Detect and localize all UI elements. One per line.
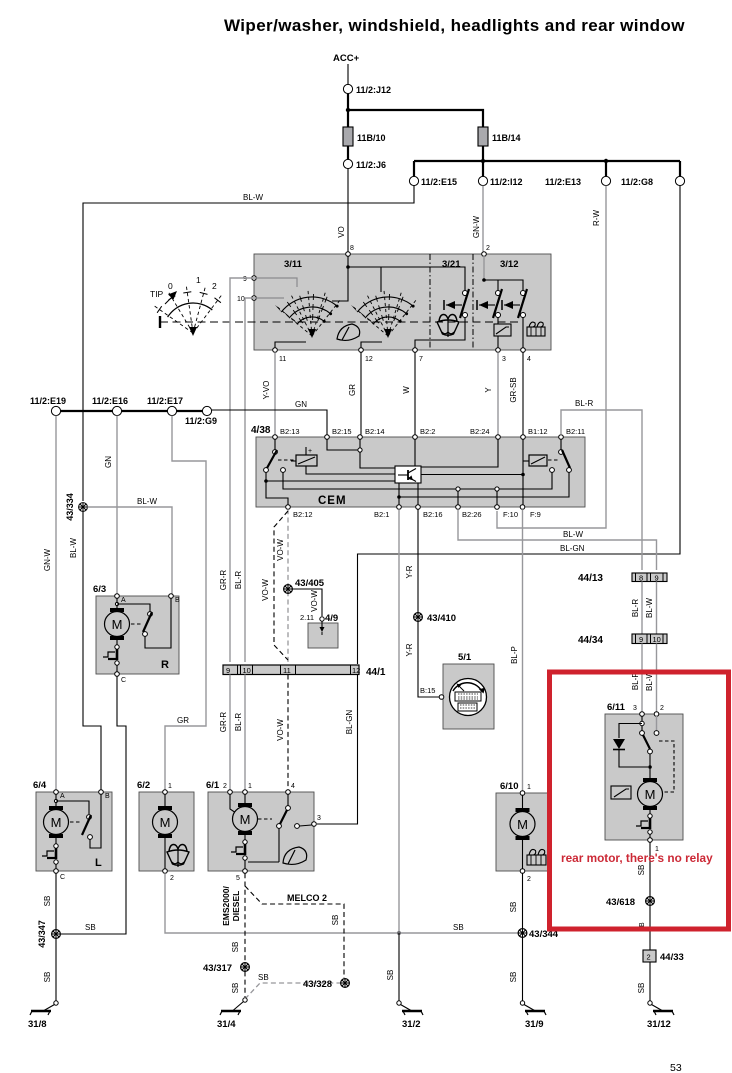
svg-text:M: M bbox=[51, 815, 62, 830]
wire GR from E17 to 6/2 pin 1 bbox=[165, 416, 206, 790]
label SB on MELCO drop bbox=[331, 915, 340, 926]
svg-text:SB: SB bbox=[509, 902, 518, 913]
svg-text:B: B bbox=[175, 597, 180, 604]
wire BL-R 44/34 to 6/11 pin 3 bbox=[641, 644, 643, 712]
CEM pin F:9 bbox=[520, 505, 541, 519]
wire W pin 7 to CEM B2:2 bbox=[414, 352, 416, 434]
svg-text:M: M bbox=[645, 787, 656, 802]
bus wire E15 to G8 bbox=[414, 160, 680, 162]
6/1 wiper blade icon bbox=[283, 847, 307, 864]
6/4 pin B bbox=[99, 790, 110, 800]
switch module 3/11 box bbox=[254, 254, 551, 350]
rear window defrost icon 3/12 bbox=[527, 322, 545, 336]
svg-text:9: 9 bbox=[226, 666, 230, 675]
svg-text:10: 10 bbox=[243, 666, 251, 675]
svg-text:GN-W: GN-W bbox=[43, 548, 52, 571]
pin 2 of 3/11 bbox=[482, 252, 487, 257]
wire SB 6/2 pin 2 to bus bbox=[165, 873, 520, 933]
svg-text:Wiper/washer, windshield, head: Wiper/washer, windshield, headlights and… bbox=[224, 16, 685, 35]
internal wire fan2 feed bbox=[380, 267, 382, 292]
svg-text:Y-VO: Y-VO bbox=[262, 381, 271, 400]
svg-text:31/2: 31/2 bbox=[402, 1019, 421, 1030]
svg-text:6/1: 6/1 bbox=[206, 780, 220, 791]
label Y bbox=[484, 387, 493, 393]
6/10 pin 1 bbox=[520, 784, 531, 795]
svg-text:6/11: 6/11 bbox=[607, 702, 626, 713]
label Y-R lower bbox=[405, 643, 414, 656]
rear defrost element 6/10 box bbox=[496, 781, 551, 871]
connector 11/2:E15 bbox=[409, 176, 457, 187]
wire BL-R 44/1 pin 10 to 6/1 pin 1 bbox=[244, 675, 246, 792]
svg-text:C: C bbox=[121, 677, 126, 684]
CEM pin B2:26 bbox=[456, 505, 482, 519]
wire junction down to fuse 11B/10 bbox=[347, 110, 349, 127]
wire GR-SB pin 4 to CEM B1:12 bbox=[522, 352, 524, 434]
CEM pin F:10 bbox=[495, 505, 518, 519]
wire SB gray from CEM B2:1 to bus bbox=[398, 509, 400, 933]
connector 11/2:E16 bbox=[92, 396, 128, 416]
headlight wiper motor 6/4 box bbox=[33, 780, 112, 871]
title bbox=[224, 16, 685, 35]
svg-text:8: 8 bbox=[350, 245, 354, 252]
svg-text:SB: SB bbox=[453, 923, 464, 932]
svg-text:GR-SB: GR-SB bbox=[509, 377, 518, 402]
svg-text:44/1: 44/1 bbox=[366, 667, 386, 678]
svg-text:BL-W: BL-W bbox=[243, 193, 263, 202]
wire SB 6/10 pin 2 to splice 43/344 bbox=[522, 873, 524, 929]
internal wire pin 11 to fan1 bbox=[275, 342, 306, 348]
internal wire pin10 into rotor field bbox=[254, 297, 284, 299]
6/4 pin C bbox=[54, 869, 65, 881]
stub to 11/2:G8 bbox=[679, 161, 681, 176]
CEM internal wire contact to B2:12 bbox=[264, 472, 288, 505]
label GR bbox=[348, 384, 357, 396]
svg-text:11/2:I12: 11/2:I12 bbox=[490, 177, 523, 187]
label SB dash2 bbox=[231, 983, 240, 994]
label SB rear2 bbox=[639, 922, 646, 932]
annotation rear motor, there's no relay bbox=[561, 851, 713, 865]
6/4 label L bbox=[95, 857, 102, 869]
6/10 motor M bbox=[510, 795, 535, 869]
svg-text:R-W: R-W bbox=[592, 210, 601, 226]
svg-text:44/13: 44/13 bbox=[578, 573, 603, 584]
svg-text:9: 9 bbox=[639, 635, 643, 644]
svg-text:SB: SB bbox=[231, 942, 240, 953]
svg-text:M: M bbox=[112, 617, 123, 632]
svg-text:9: 9 bbox=[655, 574, 659, 583]
junction dot E13 bbox=[604, 159, 608, 163]
svg-text:BL-W: BL-W bbox=[645, 598, 654, 618]
wire GN from E16 to 6/3 pin A bbox=[116, 416, 118, 594]
svg-text:GN-W: GN-W bbox=[472, 215, 481, 238]
svg-text:B2:2: B2:2 bbox=[420, 427, 435, 436]
svg-text:B2:1: B2:1 bbox=[374, 510, 389, 519]
svg-text:F:10: F:10 bbox=[503, 510, 518, 519]
svg-text:B2:24: B2:24 bbox=[470, 427, 490, 436]
pin 8 of 3/11 bbox=[346, 252, 351, 257]
svg-text:1: 1 bbox=[196, 275, 201, 285]
label BL-W mid bbox=[137, 497, 157, 506]
svg-text:43/317: 43/317 bbox=[203, 963, 232, 974]
svg-text:6/10: 6/10 bbox=[500, 781, 519, 792]
svg-text:3: 3 bbox=[502, 356, 506, 363]
svg-text:2: 2 bbox=[223, 783, 227, 790]
6/11 headlamp wiper icon bbox=[611, 786, 631, 799]
svg-text:43/405: 43/405 bbox=[295, 578, 325, 589]
windshield wiper motor 6/1 box bbox=[206, 780, 314, 871]
wire SB 43/618 to 44/33 bbox=[649, 905, 651, 950]
splice 43/344 bbox=[518, 929, 559, 940]
svg-text:11/2:E16: 11/2:E16 bbox=[92, 396, 128, 406]
wire SB dashed 6/1 pin 5 to splice 43/317 bbox=[244, 873, 246, 962]
label 3/11 bbox=[284, 259, 303, 270]
6/1 pin 5 bbox=[236, 869, 247, 882]
svg-text:4: 4 bbox=[527, 356, 531, 363]
6/11 pin 2 bbox=[654, 705, 664, 716]
label EMS2000/DIESEL bbox=[221, 886, 241, 926]
svg-text:+: + bbox=[308, 448, 312, 455]
6/2 washer spray icon bbox=[167, 845, 189, 868]
label VO-W lower bbox=[276, 719, 285, 741]
connector rail 44/1 bbox=[223, 665, 386, 678]
svg-text:2: 2 bbox=[486, 245, 490, 252]
svg-text:3/11: 3/11 bbox=[284, 259, 303, 270]
svg-text:EMS2000/: EMS2000/ bbox=[221, 886, 231, 926]
6/1 motor M bbox=[230, 794, 258, 835]
label BL-P bbox=[510, 646, 519, 664]
internal wire pin9 into rotor field bbox=[254, 278, 297, 287]
svg-text:7: 7 bbox=[419, 356, 423, 363]
wire BL-W 44/13 to 44/34 bbox=[656, 582, 658, 635]
svg-text:BL-R: BL-R bbox=[234, 713, 243, 731]
svg-text:1: 1 bbox=[168, 783, 172, 790]
svg-text:GN: GN bbox=[295, 400, 307, 409]
label BL-W low bbox=[645, 671, 654, 691]
rotary fan switch 2 of 3/11 bbox=[351, 289, 417, 338]
svg-text:8: 8 bbox=[639, 574, 643, 583]
svg-text:MELCO 2: MELCO 2 bbox=[287, 893, 327, 903]
wire VO from J6 to 3/11 pin 8 bbox=[347, 169, 349, 252]
6/1 pin 3 bbox=[312, 815, 321, 826]
connector 11/2:J12 bbox=[343, 84, 391, 95]
label BL-GN vertical bbox=[345, 710, 354, 735]
internal wire pin8 junction bbox=[346, 256, 465, 290]
label SB left bbox=[43, 896, 52, 907]
pin 11 of 3/11 bbox=[273, 348, 287, 363]
internal wire pin 2 junction 3/12 bbox=[482, 256, 523, 290]
svg-text:BL-R: BL-R bbox=[631, 599, 640, 617]
divider 3/11|3/21 bbox=[429, 254, 431, 350]
6/3 label R bbox=[161, 659, 169, 671]
CEM internal wire transistor to B1:12 node bbox=[421, 474, 523, 476]
CEM internal wire B1:12 to F:9 bbox=[521, 439, 525, 505]
svg-text:43/347: 43/347 bbox=[37, 920, 47, 948]
svg-text:5/1: 5/1 bbox=[458, 652, 472, 663]
label Y-VO bbox=[262, 381, 271, 400]
CEM pin B1:12 bbox=[521, 427, 548, 439]
6/11 pin 1 bbox=[648, 838, 659, 853]
wire GN-W from E19 to 6/4 pin A bbox=[55, 416, 57, 790]
rotary fan switch 1 of 3/11 bbox=[275, 289, 341, 338]
svg-text:GR-R: GR-R bbox=[219, 570, 228, 591]
internal wire switch2 to pin 4 bbox=[522, 317, 524, 348]
ground 31/2 bbox=[397, 1001, 423, 1030]
junction dot below 11B/14 bbox=[481, 159, 485, 163]
6/4 pin A bbox=[54, 790, 65, 800]
wire Y pin 3 to CEM B2:24 bbox=[497, 352, 499, 434]
svg-text:VO-W: VO-W bbox=[310, 590, 319, 612]
wire BL-R 44/13 to 44/34 bbox=[641, 582, 643, 635]
pin 10 of 3/11 bbox=[237, 296, 256, 303]
6/11 motor M bbox=[638, 754, 663, 810]
svg-text:31/8: 31/8 bbox=[28, 1019, 47, 1030]
svg-text:11/2:E17: 11/2:E17 bbox=[147, 396, 183, 406]
CEM internal wire contact2 bus bbox=[283, 472, 552, 489]
label VO-W dashed black bbox=[261, 579, 270, 601]
svg-text:10: 10 bbox=[653, 635, 661, 644]
CEM internal junction F:10 bbox=[495, 487, 499, 505]
6/2 motor M bbox=[153, 794, 178, 869]
splice 43/405 bbox=[284, 578, 325, 593]
headlight wiper switch 3/12 bbox=[477, 289, 502, 318]
CEM pin B2:1 bbox=[374, 505, 401, 519]
connector 11/2:E13 bbox=[545, 176, 611, 187]
label VO-W branch bbox=[310, 590, 319, 612]
label BL-W right bbox=[563, 530, 583, 539]
svg-text:10: 10 bbox=[237, 296, 245, 303]
label 3/21 bbox=[442, 259, 461, 270]
svg-text:43/410: 43/410 bbox=[427, 613, 456, 624]
svg-text:11B/10: 11B/10 bbox=[357, 133, 386, 143]
svg-text:11: 11 bbox=[283, 666, 291, 675]
svg-text:B2:26: B2:26 bbox=[462, 510, 482, 519]
svg-text:ACC+: ACC+ bbox=[333, 53, 360, 64]
svg-text:53: 53 bbox=[670, 1062, 682, 1073]
wire BL-R pin 10 to 44/1 pin 10 bbox=[245, 298, 254, 662]
ground 31/4 bbox=[217, 998, 247, 1030]
label SB 312 bbox=[386, 970, 395, 981]
divider 3/21|3/12 bbox=[472, 254, 474, 350]
connector 11/2:I12 bbox=[478, 176, 522, 187]
6/3 park position symbol bbox=[103, 640, 119, 672]
svg-text:2: 2 bbox=[527, 876, 531, 883]
label GN-W left bbox=[43, 548, 52, 571]
diode module 4/9 bbox=[300, 613, 338, 648]
svg-text:11/2:J6: 11/2:J6 bbox=[356, 160, 386, 170]
svg-text:BL-R: BL-R bbox=[575, 399, 593, 408]
svg-text:SB: SB bbox=[637, 865, 646, 876]
label 3/12 bbox=[500, 259, 519, 270]
svg-text:11/2:E13: 11/2:E13 bbox=[545, 177, 581, 187]
label BL-R upper bbox=[234, 571, 243, 589]
wire BL-P from CEM F:9 to 6/10 pin 1 bbox=[522, 509, 524, 791]
wire SB dashed 43/317 to ground 31/4 bbox=[244, 971, 246, 997]
svg-text:44/33: 44/33 bbox=[660, 952, 684, 963]
wire SB dashed gray link 43/328 bbox=[245, 983, 340, 999]
CEM internal wire transistor emitter to relay bbox=[397, 472, 569, 505]
wire BL-GN 44/1 pin 12 to 6/1 pin 3 bbox=[317, 675, 358, 825]
svg-text:SB: SB bbox=[386, 970, 395, 981]
svg-text:C: C bbox=[60, 874, 65, 881]
wire Y-R splice to 5/1 B:15 bbox=[418, 621, 439, 697]
wire VO-W dashed black B2:12 branch bbox=[274, 511, 288, 660]
svg-text:11/2:J12: 11/2:J12 bbox=[356, 85, 391, 95]
label SB rear bbox=[637, 865, 646, 876]
wire VO-W splice to 4/9 bbox=[292, 589, 322, 616]
wire BL-W from CEM B2:26 to 44/13 pin 9 bbox=[458, 509, 657, 570]
6/10 defrost icon bbox=[527, 849, 546, 865]
svg-text:BL-GN: BL-GN bbox=[345, 710, 354, 735]
svg-text:L: L bbox=[95, 857, 102, 869]
svg-text:11: 11 bbox=[279, 356, 286, 363]
svg-text:31/12: 31/12 bbox=[647, 1019, 671, 1030]
internal wire 3/21 lower contact to pin 7 bbox=[415, 317, 465, 348]
pin 7 of 3/11 bbox=[413, 348, 423, 363]
CEM dashed link right bbox=[548, 459, 560, 461]
svg-text:43/328: 43/328 bbox=[303, 979, 332, 990]
svg-text:GR-R: GR-R bbox=[219, 712, 228, 733]
6/4 park switch contact bbox=[56, 794, 101, 848]
wire BL-R from CEM B2:11 to 44/13 pin 8 bbox=[561, 410, 642, 570]
label SB 610 bbox=[509, 902, 518, 913]
wire ACC+ to connector 11/2:J12 bbox=[347, 64, 349, 84]
TIP dial symbol bbox=[150, 275, 222, 336]
label SB 319 bbox=[509, 972, 518, 983]
svg-text:TIP: TIP bbox=[150, 289, 164, 299]
label GR-SB bbox=[509, 377, 518, 402]
internal wire pin 12 to fan2 bbox=[361, 342, 382, 348]
CEM internal wire contact bus to transistor bbox=[266, 480, 395, 482]
ground 31/12 bbox=[647, 1001, 674, 1030]
CEM pin B2:15 bbox=[325, 427, 352, 439]
svg-text:VO-W: VO-W bbox=[276, 719, 285, 741]
wire VO-W 44/1 pin 11 to 6/1 pin 4 bbox=[287, 675, 289, 792]
svg-text:SB: SB bbox=[637, 983, 646, 994]
fuse 11B/14 bbox=[478, 127, 521, 146]
CEM relay coil left bbox=[291, 447, 395, 474]
svg-text:B2:12: B2:12 bbox=[293, 510, 313, 519]
CEM transistor driver bbox=[395, 466, 421, 483]
CEM internal relay switch right bbox=[550, 439, 572, 472]
connector 11/2:G9 bbox=[185, 406, 217, 426]
svg-text:31/4: 31/4 bbox=[217, 1019, 236, 1030]
label MELCO 2 bbox=[287, 893, 327, 903]
label VO-W dashed gray upper bbox=[276, 539, 285, 561]
svg-text:2: 2 bbox=[212, 281, 217, 291]
washer pump 6/2 box bbox=[137, 780, 194, 871]
svg-text:2: 2 bbox=[647, 953, 651, 962]
svg-text:rear motor, there's no relay: rear motor, there's no relay bbox=[561, 851, 713, 865]
svg-text:VO-W: VO-W bbox=[276, 539, 285, 561]
label GN horizontal bbox=[295, 400, 307, 409]
instrument cluster 5/1 bbox=[420, 652, 494, 729]
wire VO-W dashed gray B2:12 to 44/1 pin 11 bbox=[287, 509, 289, 662]
wire fuse 11B/14 to bus bbox=[482, 146, 484, 161]
washer switch 3/21 bbox=[444, 289, 469, 318]
label SB dash3 bbox=[258, 973, 269, 982]
label SB bbox=[85, 923, 96, 932]
svg-text:11/2:G9: 11/2:G9 bbox=[185, 416, 217, 426]
svg-text:3: 3 bbox=[317, 815, 321, 822]
CEM pin B2:12 bbox=[286, 505, 313, 519]
6/10 pin 2 bbox=[520, 869, 531, 883]
splice 43/410 bbox=[414, 613, 456, 624]
node ACC+ bbox=[333, 53, 360, 64]
label GR-R upper bbox=[219, 570, 228, 591]
label BL-R mid bbox=[631, 599, 640, 617]
label BL-R lower bbox=[234, 713, 243, 731]
CEM internal switch left bbox=[264, 439, 286, 472]
pin 2 label bbox=[486, 245, 490, 252]
pin 8 label bbox=[350, 245, 354, 252]
CEM pin B2:2 bbox=[413, 427, 436, 439]
svg-text:A: A bbox=[60, 793, 65, 800]
internal wire pin8 to wiper rotor bbox=[332, 267, 348, 301]
6/11 switch bbox=[640, 716, 659, 754]
mechanical dashed link line bbox=[160, 316, 520, 328]
svg-text:BL-W: BL-W bbox=[137, 497, 157, 506]
label GN left bbox=[104, 456, 113, 468]
svg-text:4/9: 4/9 bbox=[325, 613, 338, 624]
svg-text:B:15: B:15 bbox=[420, 686, 435, 695]
svg-text:11B/14: 11B/14 bbox=[492, 133, 521, 143]
svg-text:2.11: 2.11 bbox=[300, 613, 314, 622]
wire Y-VO pin 11 to CEM B2:13 bbox=[274, 352, 276, 434]
CEM internal wire B2:24 to transistor bbox=[421, 439, 498, 467]
CEM internal wire transistor to B2:16 bbox=[417, 483, 419, 505]
connector 44/34 bbox=[578, 634, 667, 646]
fuse 11B/10 bbox=[343, 127, 386, 146]
svg-text:6/2: 6/2 bbox=[137, 780, 150, 791]
6/11 park linkage dashed bbox=[659, 741, 674, 792]
svg-text:6/4: 6/4 bbox=[33, 780, 47, 791]
wire GN from G9 to CEM B2:15 bbox=[212, 410, 327, 435]
svg-text:B2:11: B2:11 bbox=[566, 427, 585, 436]
stub to 11/2:I12 bbox=[482, 161, 484, 176]
6/1 park switch contact bbox=[248, 794, 312, 862]
svg-text:B: B bbox=[105, 793, 110, 800]
6/11 park position symbol bbox=[636, 810, 652, 838]
svg-text:BL-W: BL-W bbox=[563, 530, 583, 539]
stub to 11/2:E13 bbox=[605, 161, 607, 176]
svg-text:5: 5 bbox=[236, 875, 240, 882]
svg-text:BL-GN: BL-GN bbox=[560, 544, 585, 553]
label GN-W bbox=[472, 215, 481, 238]
wire J12 down to junction bbox=[347, 94, 349, 110]
label BL-W top bbox=[243, 193, 263, 202]
svg-text:43/334: 43/334 bbox=[65, 493, 75, 521]
washer spray icon 3/21 bbox=[437, 315, 459, 338]
splice 43/334 bbox=[65, 493, 87, 521]
svg-text:DIESEL: DIESEL bbox=[231, 891, 241, 922]
wire SB 6/11 pin 1 to splice 43/618 bbox=[649, 842, 651, 897]
6/3 pin C bbox=[115, 672, 126, 684]
6/3 motor M bbox=[105, 598, 130, 640]
pin 3 of 3/12 bbox=[496, 348, 506, 363]
wire BL-W from E15 to splice 43/334 bbox=[83, 186, 414, 501]
CEM internal wire B2:2 to transistor bbox=[414, 439, 416, 466]
pin 9 of 3/11 bbox=[243, 276, 256, 283]
connector 44/13 bbox=[578, 573, 667, 584]
6/4 park position symbol bbox=[42, 838, 58, 869]
CEM dashed link left bbox=[278, 459, 294, 461]
label GR-R lower bbox=[219, 712, 228, 733]
svg-text:SB: SB bbox=[509, 972, 518, 983]
label Y-R upper bbox=[405, 565, 414, 578]
connector 11/2:E19 bbox=[30, 396, 66, 416]
svg-text:31/9: 31/9 bbox=[525, 1019, 544, 1030]
label GR bbox=[177, 716, 189, 725]
